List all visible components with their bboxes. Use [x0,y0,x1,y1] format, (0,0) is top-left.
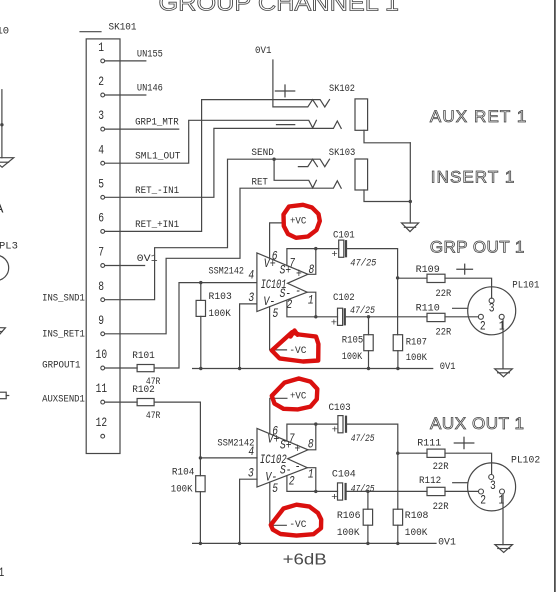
svg-text:GROUP CHANNEL 1: GROUP CHANNEL 1 [159,0,400,16]
svg-text:RET_+IN1: RET_+IN1 [135,219,179,231]
svg-text:SK103: SK103 [329,147,356,159]
op-amp IC102 SSM2142 outline [257,428,308,487]
wire IC101 pin8 force output [308,249,316,275]
wire R102 to IC102 pin4 [154,402,257,458]
resistor R106 [363,509,372,525]
node junction R106 top [366,490,369,493]
svg-text:R104: R104 [172,466,195,478]
svg-text:RET: RET [252,177,268,189]
node junction dot on left margin wire [0,123,3,126]
plus polarity mark GRP out [457,264,473,274]
wire jack sleeves down to ground [409,143,411,223]
wire to C104 [316,490,338,492]
svg-text:5: 5 [273,306,279,321]
svg-text:RET_-IN1: RET_-IN1 [135,185,179,197]
SK103 break contact arm [298,159,317,166]
capacitor C101 [331,230,377,270]
resistor R109 [427,274,445,282]
resistor R102 [137,399,154,406]
svg-text:0V1: 0V1 [440,361,456,373]
svg-text:INS_SND1: INS_SND1 [42,292,85,304]
svg-text:4: 4 [248,267,254,282]
svg-text:SK101: SK101 [109,22,137,34]
svg-text:7: 7 [289,256,295,271]
svg-text:22R: 22R [433,501,450,513]
svg-text:3: 3 [248,465,254,480]
wire IC102 pin5 to -VC [270,482,287,525]
wire INS_RET1 pin9 to SK103 ring spring (RET) [105,181,342,334]
wire R107 to 0V rail [397,351,399,369]
svg-text:INS_RET1: INS_RET1 [42,329,85,341]
wire IC101 pin3 to 0V rail [240,304,257,369]
PL101 pin 3 [489,298,494,303]
node junction rail R108 [396,542,399,545]
wire SEND branch to SK103 normal line [274,159,316,188]
svg-text:SEND: SEND [251,147,274,159]
minus polarity mark SK102 [277,124,295,126]
ground PL101 [495,369,513,377]
wire R103 to 0V rail [200,316,202,368]
capacitor C102 [331,292,376,330]
node junction pin7/pin8 [314,247,317,250]
wire IC102 pin7 sense [287,424,316,441]
svg-text:C102: C102 [333,292,355,304]
wire to C102 [316,316,338,318]
wire IC102 pin8 force output [308,424,316,450]
svg-text:C101: C101 [333,230,355,242]
wire junction down to R107 [397,278,399,335]
resistor R107 [393,335,402,351]
resistor R108 [393,509,402,525]
svg-text:7: 7 [289,431,295,446]
svg-text:+6dB: +6dB [283,552,327,569]
svg-text:7: 7 [98,245,104,260]
wire R105 to 0V rail [368,351,370,369]
wire pin 2 stub [105,94,146,96]
wire pin 3 stub [105,128,179,130]
svg-text:+: + [296,266,302,281]
svg-text:AUX RET 1: AUX RET 1 [430,107,527,126]
node junction rail R104 [199,542,202,545]
annotation red circle +VC IC102 [272,379,318,410]
node junction rail pin3 IC102 [238,542,241,545]
svg-text:12: 12 [96,415,108,430]
wire 0V rail lower [193,542,436,544]
wire 0V1 to SK102 break contact [273,60,313,107]
svg-text:AUXSEND1: AUXSEND1 [42,394,85,406]
wire R101 to IC101 pin4 [154,283,257,368]
annotation red circle +VC IC101 [284,205,320,238]
svg-text:PL101: PL101 [512,280,539,292]
svg-text:-VC: -VC [289,345,306,357]
node junction R109 branch [396,276,399,279]
svg-text:22R: 22R [436,327,452,339]
sheet border right edge [554,0,556,592]
capacitor C104 [331,468,375,504]
svg-text:0V1: 0V1 [255,45,272,57]
wire junction to R106 [367,491,369,509]
node junction pin1/pin2 [314,315,317,318]
svg-text:GRP1_MTR: GRP1_MTR [135,117,179,129]
svg-text:1: 1 [0,565,4,580]
svg-text:3: 3 [98,108,104,123]
svg-text:1: 1 [308,467,314,482]
svg-text:+: + [331,492,337,504]
svg-text:SK102: SK102 [329,83,355,95]
PL102 shield stub [453,482,468,484]
svg-text:47/25: 47/25 [350,305,376,317]
wire R110 to PL101 pin2 [445,316,478,318]
wire SK103 sleeve to ground [364,190,410,202]
svg-text:8: 8 [308,436,314,451]
PL102 pin 3 [489,475,494,480]
wire 0V rail upper [193,368,433,370]
annotation red circle -VC IC102 [271,505,321,536]
svg-text:GRP OUT 1: GRP OUT 1 [430,238,525,257]
svg-text:4: 4 [248,444,254,459]
wire IC102 pin1 force output [307,468,316,492]
svg-text:2: 2 [480,319,486,334]
wire SML1_OUT pin4 to SK102 ring line [105,120,317,163]
svg-text:C104: C104 [332,468,356,480]
svg-text:SSM2142: SSM2142 [209,265,245,277]
svg-text:R107: R107 [406,336,427,348]
wire left margin vertical [1,90,3,158]
wire R108 to 0V rail [397,525,399,543]
wire C102 to R110 [346,316,427,318]
svg-text:R109: R109 [416,264,440,276]
wire C104 to R112 [347,490,427,492]
node junction rail R105 [367,367,370,370]
svg-text:6: 6 [272,248,278,263]
svg-text:+: + [331,318,337,330]
wire R106 to 0V rail [367,525,369,543]
svg-text:100K: 100K [406,352,428,364]
PL101 pin 1 [499,314,504,319]
node junction rail pin3 [238,367,241,370]
capacitor C103 [329,402,376,445]
wire R104 to 0V rail [199,492,201,544]
wire AUXSEND1 pin11 to R102 [105,401,138,403]
svg-text:0V1: 0V1 [438,537,456,549]
svg-text:4: 4 [98,142,104,157]
jack SK103 body [355,159,368,190]
svg-text:+VC: +VC [290,391,306,403]
wire junction to R104 [199,458,201,476]
wire to C101 [316,248,339,250]
svg-text:R105: R105 [342,335,364,347]
svg-text:UN146: UN146 [137,82,163,94]
svg-text:+: + [331,249,337,261]
wire IC102 pin2 sense [287,476,316,491]
svg-text:100K: 100K [171,483,193,495]
resistor R101 [137,365,154,372]
svg-text:AUX OUT 1: AUX OUT 1 [430,414,524,433]
wire IC101 pin5 to -VC [270,307,287,350]
node junction SEND branch [272,158,275,161]
wire junction to R111 [398,452,427,454]
svg-text:+VC: +VC [290,216,306,228]
svg-text:8: 8 [98,279,104,294]
node junction sleeve ground [409,200,412,203]
plus polarity mark AUX out [454,437,474,448]
svg-text:R110: R110 [416,302,440,314]
svg-text:A: A [0,202,4,218]
wire IC101 pin7 sense [287,249,316,266]
wire IC102 pin3 to 0V rail [240,479,257,543]
svg-text:PL102: PL102 [511,455,540,467]
svg-text:R106: R106 [337,510,361,522]
svg-text:5: 5 [98,176,104,191]
svg-text:47/25: 47/25 [350,258,377,270]
svg-text:R112: R112 [419,475,441,487]
node junction R111 branch [396,452,399,455]
wire C101 to R109 branch [347,249,398,278]
svg-text:-VC: -VC [289,519,306,531]
annotation red circle -VC IC101 [272,331,319,362]
svg-text:C103: C103 [329,402,351,414]
wire IC101 pin1 force output [307,292,316,317]
svg-text:22R: 22R [436,288,452,300]
wire C103 to R111 branch [347,424,398,453]
svg-text:100K: 100K [337,527,360,539]
svg-text:-: - [295,284,301,299]
PL102 pin 2 [479,489,484,494]
svg-text:R103: R103 [209,291,232,303]
wire GRPOUT1 pin10 to R101 [105,367,138,369]
svg-text:10: 10 [0,25,9,37]
svg-text:11: 11 [96,381,108,396]
svg-text:PL3: PL3 [0,241,18,253]
ground symbol fragment left margin [0,328,5,336]
wire junction down to R108 [397,453,399,509]
op-amp IC101 SSM2142 outline [257,253,308,312]
svg-text:1: 1 [308,293,314,308]
ground jacks [402,223,419,232]
svg-text:R108: R108 [405,510,429,522]
ground arrow left margin [0,158,14,168]
connector PL3 circle fragment [0,255,9,280]
wire IC101 pin6 to +VC [270,223,285,258]
resistor R110 [427,313,445,321]
svg-text:SML1_OUT: SML1_OUT [135,151,180,163]
wire junction to R109 [398,277,427,279]
resistor fragment left margin [0,392,9,399]
svg-text:47R: 47R [146,410,161,422]
svg-text:-: - [295,459,301,474]
svg-text:R111: R111 [417,438,441,450]
node junction pin1/pin2 IC102 [314,490,317,493]
svg-text:22R: 22R [433,461,450,473]
wire R112 to PL102 pin2 [445,490,478,492]
svg-text:3: 3 [248,290,254,305]
wire junction to R105 [368,317,370,335]
svg-text:6: 6 [272,423,278,438]
svg-text:R102: R102 [132,384,155,396]
node junction rail R107 [396,367,399,370]
node junction rail R106 [366,542,369,545]
svg-text:5: 5 [272,481,278,496]
resistor R111 [427,449,445,457]
svg-text:+: + [332,425,338,437]
svg-text:1: 1 [499,319,505,334]
svg-text:47/25: 47/25 [351,484,375,496]
svg-text:UN155: UN155 [137,48,163,60]
wire RET_+IN1 pin6 to SK102 tip [105,100,330,232]
node junction R105 top [367,315,370,318]
svg-text:GRPOUT1: GRPOUT1 [42,359,80,371]
plus polarity mark SK102 [275,85,294,97]
svg-text:47/25: 47/25 [351,433,375,445]
wire R111 to PL102 pin3 [445,453,492,474]
wire R109 to PL101 pin3 [445,278,492,298]
PL101 pin 2 [478,314,483,319]
resistor R103 [196,300,205,316]
svg-text:10: 10 [96,347,108,362]
node junction pin7/pin8 IC102 [314,422,317,425]
svg-text:INSERT 1: INSERT 1 [431,168,515,187]
node junction rail R103 [199,367,202,370]
svg-text:100K: 100K [342,351,363,363]
wire PL101 pin1 to ground [502,319,504,369]
wire PL102 pin1 to ground [502,494,504,545]
svg-text:1: 1 [98,40,104,55]
resistor R105 [364,335,373,351]
PL102 pin 1 [500,489,505,494]
svg-text:2: 2 [289,473,295,488]
svg-text:6: 6 [98,211,104,226]
node junction R103 top [199,281,202,284]
wire pin 1 stub [105,60,146,62]
wire SK102 sleeve to ground [364,130,410,143]
svg-text:2: 2 [480,493,486,508]
svg-text:3: 3 [489,301,495,316]
svg-text:100K: 100K [405,527,428,539]
svg-text:+: + [295,441,301,456]
svg-text:3: 3 [490,478,496,493]
svg-text:R101: R101 [132,350,155,362]
resistor R104 [196,476,205,492]
wire to C103 [316,423,338,425]
ground PL102 [495,545,513,553]
wire IC102 pin6 to +VC [270,398,287,434]
PL101 shield stub [453,307,468,309]
svg-text:100K: 100K [209,308,232,320]
wire junction to R103 [200,283,202,301]
wire IC101 pin2 sense [287,300,316,317]
node junction R104 top [199,456,202,459]
SK102 break contact spring leg [313,100,318,107]
jack SK102 body [355,99,368,130]
resistor R112 [427,487,445,495]
wire pin 7 stub [105,265,145,267]
dash fragment near SK101 [80,31,101,33]
wire INS_SND1 pin8 to SK103 tip (SEND) [105,159,330,300]
svg-text:9: 9 [98,313,104,328]
svg-text:2: 2 [98,74,104,89]
wire RET_-IN1 pin5 to SK102 ring spring [105,121,342,197]
